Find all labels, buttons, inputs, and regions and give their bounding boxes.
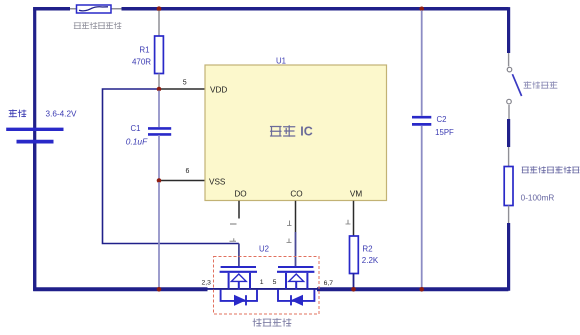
resistor R2: [350, 236, 359, 274]
junction node VSS: [157, 178, 162, 183]
capacitor C1 bottom lead: [158, 135, 160, 179]
wire top bus B+ right segment: [122, 7, 509, 11]
svg-text:VDD: VDD: [210, 86, 227, 95]
svg-text:2.2K: 2.2K: [362, 256, 379, 265]
svg-text:6: 6: [186, 168, 190, 175]
svg-text:R2: R2: [362, 245, 373, 254]
wire R1 bottom lead: [158, 74, 160, 88]
op IC U1 box 保护IC: [205, 65, 387, 201]
svg-text:VM: VM: [350, 189, 362, 198]
dashed box U2: [214, 257, 320, 315]
svg-text:IC: IC: [300, 125, 313, 139]
wire VDD pin stub to IC: [159, 88, 205, 90]
junction node VSS at bottom bus: [157, 287, 162, 292]
transistor Q1 (U2 left FET): [220, 267, 257, 290]
wire load to bottom bus: [508, 206, 510, 224]
junction node R2 bottom bus: [351, 287, 356, 292]
wire top bus B+ left segment: [33, 7, 70, 11]
resistor RL load 0-100mR: [504, 167, 513, 206]
fuse F1 resettable fuse: [70, 5, 122, 13]
wire FET source-drain row: [207, 288, 318, 290]
pin number mark DO: [230, 223, 237, 225]
junction node C2 top: [419, 6, 424, 11]
svg-text:R1: R1: [139, 46, 150, 55]
body diode Q1: [221, 290, 257, 306]
label 保护IC inside U1: [271, 125, 313, 139]
svg-text:5: 5: [273, 279, 277, 286]
svg-text:DO: DO: [234, 189, 246, 198]
wire DO pin stub: [238, 201, 240, 219]
junction node R1 top bus: [157, 6, 162, 11]
junction node VDD: [157, 87, 162, 92]
capacitor C1 top lead: [158, 91, 160, 128]
svg-text:C1: C1: [131, 124, 141, 133]
label 电芯: [9, 110, 26, 117]
wire left gate drop into Q1: [238, 244, 240, 267]
svg-text:1: 1: [260, 279, 264, 286]
wire VM pin stub: [353, 201, 355, 236]
wire battery negative to bottom bus: [33, 144, 36, 291]
svg-text:15PF: 15PF: [435, 128, 454, 137]
svg-text:6,7: 6,7: [324, 280, 334, 287]
wire VSS net down to bottom bus: [158, 182, 160, 290]
body diode Q2: [278, 290, 314, 306]
svg-text:2,3: 2,3: [201, 280, 211, 287]
wire R1 top lead: [158, 10, 160, 36]
wire left branch from B+: [33, 7, 36, 291]
label 短路开关: [524, 82, 557, 89]
pin number mark CO lower: [287, 239, 292, 243]
svg-text:U2: U2: [259, 245, 269, 254]
pin number mark gate Q1: [230, 238, 237, 241]
wire CO pin stub: [295, 201, 297, 232]
label 负载&短路电流: [522, 167, 579, 174]
battery BT1 plates: [6, 129, 63, 141]
wire switch to load: [508, 105, 510, 119]
transistor Q2 (U2 right FET): [277, 267, 314, 290]
pin number mark VM: [346, 220, 351, 224]
resistor R1: [155, 36, 164, 74]
capacitor C2 plates: [412, 117, 431, 124]
svg-text:C2: C2: [437, 115, 447, 124]
svg-text:U1: U1: [276, 57, 286, 66]
wire VSS pin stub to IC: [159, 180, 205, 182]
switch S1 短路开关: [507, 67, 522, 104]
wire CO gate drop into Q2: [295, 232, 297, 267]
label 场效应管: [253, 319, 291, 327]
capacitor C1 plates: [148, 128, 171, 134]
wire bottom bus right segment: [317, 287, 508, 291]
svg-text:VSS: VSS: [209, 178, 226, 187]
svg-text:0-100mR: 0-100mR: [521, 194, 555, 203]
svg-text:3.6-4.2V: 3.6-4.2V: [46, 110, 77, 119]
junction node C2 bottom: [419, 287, 424, 292]
svg-text:CO: CO: [290, 189, 302, 198]
wire VDD net: junction left, down, to gate Q1: [103, 89, 239, 244]
svg-text:0.1uF: 0.1uF: [126, 137, 148, 147]
capacitor C2 bottom lead: [421, 126, 423, 289]
label 自恢复保险丝: [74, 22, 121, 29]
capacitor C2 top lead: [421, 10, 423, 116]
wire R2 bottom lead: [353, 274, 355, 291]
wire bottom bus left segment: [33, 287, 207, 291]
svg-text:470R: 470R: [132, 58, 151, 67]
wire right branch top: [507, 7, 510, 53]
pin number mark CO upper: [287, 221, 292, 226]
svg-text:5: 5: [183, 79, 187, 86]
